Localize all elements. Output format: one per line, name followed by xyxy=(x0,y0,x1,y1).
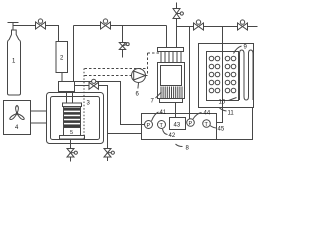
wire: header sample line to valve V3 xyxy=(75,85,89,87)
header manifold above furnace xyxy=(59,82,75,92)
gas cylinder 1 xyxy=(8,30,21,95)
dashed heated line to reactor xyxy=(148,52,161,54)
wire: fan to furnace upper xyxy=(31,110,47,112)
globe valve V4 xyxy=(194,20,204,30)
wire: exhaust loop xyxy=(217,108,253,140)
svg-text:41: 41 xyxy=(160,110,167,116)
label 44 xyxy=(193,113,202,120)
pump 6 xyxy=(132,69,146,83)
label 8 xyxy=(176,144,183,147)
riser right from heater stack xyxy=(72,92,74,104)
wire: valve V4 to valve V5 xyxy=(204,26,238,28)
label 41 xyxy=(152,112,159,121)
wire: reactor top line to chamber xyxy=(177,26,194,28)
wire: cylinder to valve xyxy=(19,25,36,27)
temperature gauge T 45 xyxy=(203,120,211,128)
needle valve NV1 (vent) xyxy=(119,43,129,58)
riser left from heater stack xyxy=(66,92,68,104)
wire: outlet to right xyxy=(248,26,258,28)
wire: valve V1 to column 2 xyxy=(46,26,59,42)
wire: lower line into gauge box xyxy=(108,133,142,135)
dashed heated line upper xyxy=(85,68,148,70)
condenser coil 10 xyxy=(240,50,254,100)
reactor furnace heater hatch xyxy=(161,87,182,99)
wire: branch down to needle vent xyxy=(122,26,124,43)
drying column 2 xyxy=(56,42,68,73)
heater stack top plate xyxy=(63,103,82,107)
svg-text:42: 42 xyxy=(169,133,176,139)
label 42 xyxy=(163,129,168,135)
label 45 xyxy=(210,126,217,129)
wire: chamber feed drop xyxy=(222,27,224,108)
dashed pump suction line xyxy=(85,75,132,77)
svg-text:44: 44 xyxy=(204,111,211,117)
wire: header top line to gauge box xyxy=(75,82,145,125)
reactor furnace 7 body xyxy=(158,63,185,99)
wire: drain below furnace xyxy=(70,139,72,149)
wire: column 2 outlet down xyxy=(61,73,63,82)
label 10 xyxy=(229,98,237,101)
reactor tubes xyxy=(161,52,181,63)
wire: reactor bottom outlet to cell xyxy=(175,103,177,118)
dotted oven boundary xyxy=(83,69,85,141)
gauge box 8 xyxy=(142,114,217,140)
wire: pressure tap riser to gauge box xyxy=(189,27,191,120)
svg-text:43: 43 xyxy=(174,123,181,129)
temperature gauge T 42 xyxy=(158,121,166,130)
reactor flange xyxy=(158,48,184,52)
svg-text:P: P xyxy=(147,123,151,129)
label 9 xyxy=(234,46,242,54)
svg-text:10: 10 xyxy=(219,100,226,106)
label 6 xyxy=(137,83,140,89)
wire: reactor inlet down xyxy=(166,26,168,48)
furnace enclosure 3 outer xyxy=(47,93,104,144)
wire: bypass line from top to header xyxy=(73,26,75,82)
reactor base xyxy=(160,99,183,103)
reactor furnace window xyxy=(161,66,182,86)
fan 4 xyxy=(4,101,31,135)
wire: valve V3 down to gauge box lower line xyxy=(99,86,108,134)
dashed heated line riser xyxy=(147,53,149,76)
furnace enclosure 3 inner xyxy=(51,97,100,140)
wire: chamber outlet to gauge box xyxy=(217,108,223,123)
wire: vent drop below xyxy=(107,134,109,149)
svg-text:P: P xyxy=(189,121,193,127)
pressure gauge P 41 xyxy=(145,121,153,130)
heater coil bands 5 xyxy=(64,108,81,127)
wire: pump discharge xyxy=(146,75,148,77)
needle valve NV2 (vent) xyxy=(104,149,114,162)
needle valve NV4 (reactor vent) xyxy=(173,3,183,19)
wire: top main line to reactor xyxy=(74,25,167,27)
wire: reactor outlet riser xyxy=(176,19,178,48)
globe valve V1 xyxy=(36,19,46,29)
sample rack 9 xyxy=(207,52,239,101)
gas cell 43 xyxy=(170,118,186,130)
globe valve V5 xyxy=(238,20,248,30)
regulator on cylinder 1 xyxy=(8,23,19,31)
svg-text:45: 45 xyxy=(218,127,225,133)
pressure gauge P 44 xyxy=(187,119,195,127)
evaporator body 5 xyxy=(64,128,81,136)
heater base plate xyxy=(60,136,85,140)
sample circles xyxy=(209,56,236,93)
globe valve V3 xyxy=(89,79,99,89)
needle valve NV3 (drain) xyxy=(67,149,77,162)
label 11 xyxy=(220,108,227,111)
test chamber 11 outer xyxy=(199,44,254,108)
wire: fan to furnace lower xyxy=(31,122,47,124)
svg-text:11: 11 xyxy=(228,111,235,117)
globe valve V2 xyxy=(101,19,111,29)
